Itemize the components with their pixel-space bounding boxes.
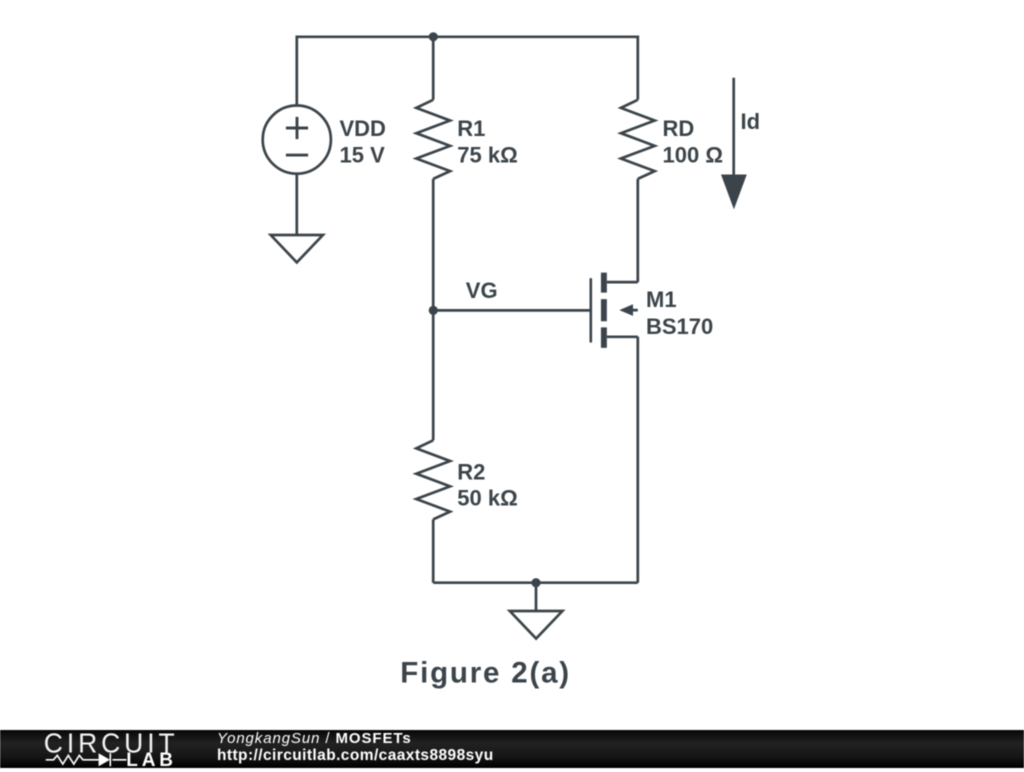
svg-text:M1: M1: [646, 287, 677, 312]
svg-text:VDD: VDD: [340, 116, 386, 141]
svg-text:R2: R2: [457, 459, 485, 484]
svg-text:BS170: BS170: [646, 314, 713, 339]
svg-text:R1: R1: [457, 116, 485, 141]
svg-text:50 kΩ: 50 kΩ: [457, 485, 517, 510]
svg-text:100 Ω: 100 Ω: [663, 143, 723, 168]
svg-text:Figure 2(a): Figure 2(a): [400, 657, 571, 690]
svg-text:RD: RD: [663, 116, 695, 141]
svg-text:75 kΩ: 75 kΩ: [457, 143, 517, 168]
svg-text:Id: Id: [741, 109, 761, 134]
svg-text:15 V: 15 V: [340, 143, 386, 168]
svg-text:VG: VG: [466, 278, 498, 303]
